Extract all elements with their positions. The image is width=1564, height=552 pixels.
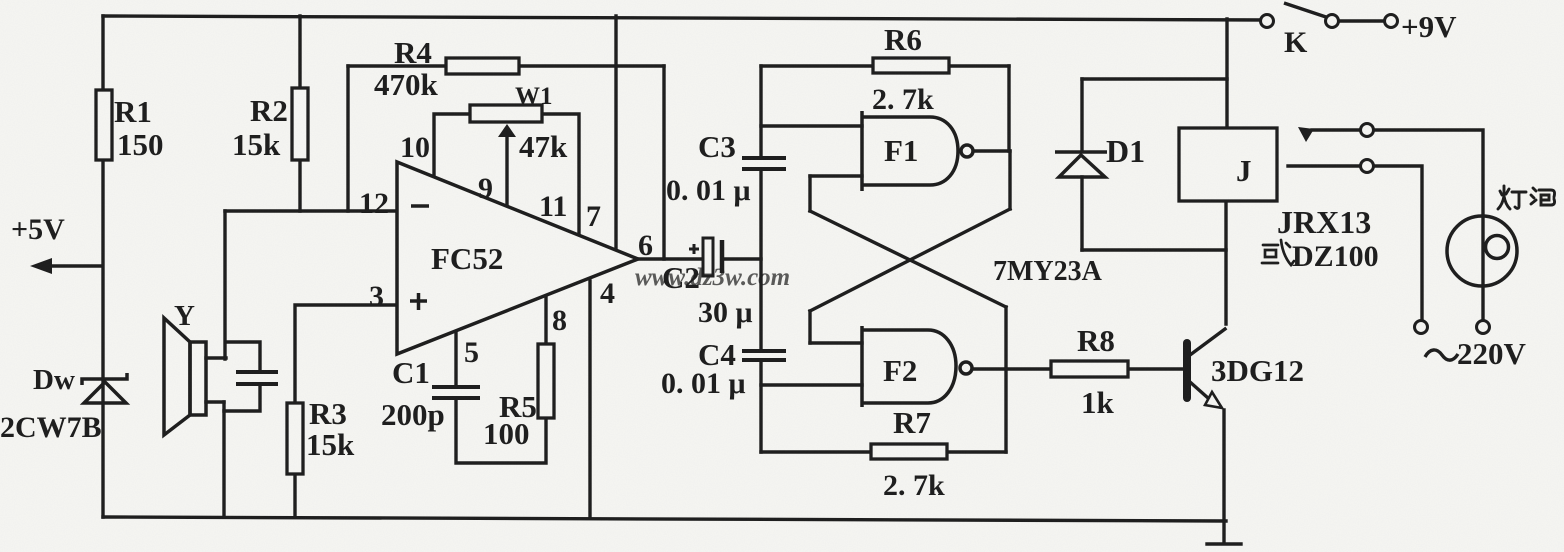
wire pin4 vertical [588, 281, 591, 518]
wire emitter diagonal [1190, 382, 1208, 398]
wire pin5 vertical [454, 331, 457, 385]
wire contact2 horizontal [1288, 164, 1360, 167]
wire contact1 to bulb [1374, 130, 1483, 321]
wire F1 top input [761, 124, 862, 127]
op-amp U FC52 [397, 162, 638, 354]
nand gate F2 [862, 326, 972, 407]
wire pin12 horizontal [225, 209, 397, 212]
resistor R5 [538, 344, 554, 418]
ground [1207, 542, 1241, 545]
resistor R1 [96, 90, 112, 160]
relay J box [1179, 128, 1277, 201]
paper grain overlay [0, 0, 1, 1]
wire R7 horizontal [761, 450, 1006, 453]
wire R3 bottom [293, 474, 296, 517]
wire right vertical to R7 [1004, 307, 1007, 452]
wire R2 branch vertical [298, 16, 301, 211]
resistor R6 [873, 58, 949, 73]
wire R4 right vertical to pin6 [662, 66, 665, 259]
wire pin7 supply vertical [614, 16, 617, 250]
op-amp plus input marker [410, 293, 427, 310]
wire pin11 from W1 right [542, 114, 579, 235]
wire F1 lower input [810, 174, 862, 177]
capacitor C2 [689, 238, 722, 276]
wire speaker bottom stub [206, 400, 224, 403]
relay contact terminal circles [1361, 124, 1374, 173]
label DZ100 alternative (huo character drawn) [1262, 240, 1294, 265]
op-amp minus input marker [411, 204, 429, 208]
wire speaker bottom vertical [222, 402, 225, 517]
wire F1 output [974, 149, 1010, 152]
capacitor C1 [432, 387, 480, 398]
wire left vertical to F2 top input [808, 311, 811, 343]
wire pin9 wiper vertical [505, 134, 508, 206]
potentiometer W1 wiper arrow [498, 124, 516, 137]
wire node C vertical below C4 [759, 361, 762, 452]
wire D1 vertical bottom [1080, 177, 1083, 250]
wire speaker top vertical [223, 211, 226, 359]
wire left vertical rail [101, 16, 104, 517]
wire D1 vertical top [1080, 79, 1083, 151]
switch K lever [1284, 3, 1326, 17]
speaker Y [164, 318, 206, 435]
capacitor C3 [742, 158, 786, 169]
220V terminal circles [1415, 321, 1490, 334]
resistor R2 [292, 88, 308, 160]
wire cross diagonal F2out to F1in [810, 211, 1006, 307]
wire top rail [103, 16, 1266, 20]
relay contact arrow [1298, 127, 1314, 142]
potentiometer W1 [470, 105, 542, 122]
wire relay coil vertical top [1225, 19, 1228, 128]
wire pin3 horizontal [295, 305, 397, 403]
wire cross diagonal F1out to F2in [810, 209, 1010, 311]
wire piezo branch bottom [224, 384, 260, 411]
wire R6 right vertical [1007, 66, 1010, 151]
label lamp bulb characters [1498, 186, 1555, 209]
wire gate top horizontal R6 rail [761, 64, 1009, 67]
capacitor C4 [742, 351, 786, 360]
wire F2 lower input [761, 383, 862, 386]
wire piezo branch top [226, 342, 260, 372]
lamp bulb [1447, 216, 1517, 286]
wire op-amp output to C2 [638, 257, 703, 260]
wire bottom rail [103, 517, 1226, 521]
wire pin8 vertical [544, 295, 547, 344]
piezo element of speaker [236, 372, 278, 384]
switch K [1261, 15, 1398, 28]
wire contact2 down [1374, 166, 1422, 320]
wire C1 R5 bottom U [456, 400, 546, 463]
wire relay bottom to collector [1224, 201, 1227, 324]
wire D1 bottom horizontal [1082, 248, 1226, 251]
label ~220V [1425, 350, 1458, 360]
wire F2 output to R8 [973, 367, 1051, 370]
wire F1 output vertical [1008, 151, 1011, 209]
wire collector diagonal [1190, 329, 1225, 355]
wire +5V tap [40, 264, 101, 267]
wire contact1 horizontal [1312, 128, 1360, 131]
zener diode Dw [82, 373, 127, 403]
wire R4 horizontal [348, 64, 664, 67]
wire F1 lower input vertical [808, 176, 811, 211]
wire node B vertical C3-C4 [759, 170, 762, 350]
wire R8 to base [1128, 367, 1183, 370]
wire F2 top input [810, 341, 862, 344]
resistor R7 [871, 444, 947, 459]
wire C3 top vertical [759, 66, 762, 157]
wire emitter vertical [1222, 410, 1225, 543]
+5V arrow [30, 258, 52, 274]
wire D1 top horizontal [1082, 77, 1227, 80]
resistor R3 [287, 403, 303, 474]
wire R4 left vertical [346, 66, 349, 211]
wire speaker top stub [206, 356, 226, 359]
wire pin10 from W1 left [434, 114, 470, 177]
wire switch link [1339, 19, 1384, 22]
diode D1 [1055, 152, 1107, 177]
resistor R8 [1051, 361, 1128, 377]
wire C2 to node B [722, 257, 761, 260]
nand gate F1 [862, 111, 973, 191]
transistor Q 3DG12 [1183, 339, 1222, 408]
resistor R4 [446, 58, 519, 74]
